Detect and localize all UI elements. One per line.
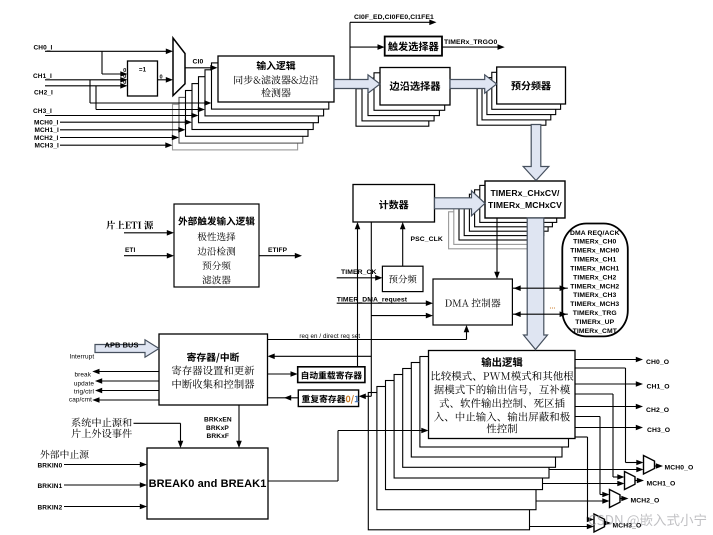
BRKIN1 label and wire: [38, 482, 148, 490]
svg-text:MCH1_I: MCH1_I: [35, 127, 60, 134]
edge selector main box: [380, 68, 450, 106]
XOR gate =1: [123, 61, 157, 96]
BRKIN0 label and wire: [38, 462, 148, 470]
system break sources label: [72, 418, 132, 427]
wire CH2_I branch to input logic CI2: [95, 86, 97, 110]
wire CH1_I to XOR input: [45, 79, 121, 81]
auto-reload register box: [298, 367, 365, 383]
wire on-chip ETI source: [124, 232, 168, 234]
output logic main box: [429, 351, 576, 439]
svg-text:MCH2_O: MCH2_O: [631, 497, 660, 504]
wire CH3_O output: [575, 425, 670, 434]
svg-text:CH2_I: CH2_I: [34, 89, 53, 96]
wire MCH1_I to input logic: [60, 129, 179, 131]
wire PSC_CLK prescaler to counter: [400, 222, 443, 266]
svg-text:BRKxF: BRKxF: [207, 433, 229, 440]
wire CH1_O output: [575, 381, 670, 390]
wire MCH0_I to input logic: [60, 121, 186, 123]
wire output stack to MCH0 mux: [549, 469, 637, 471]
wire register to auto-reload register: [268, 373, 292, 375]
svg-text:ETIFP: ETIFP: [268, 247, 288, 254]
wire CH3_I to input logic CI3: [45, 115, 192, 117]
svg-text:BRKIN1: BRKIN1: [38, 483, 63, 490]
svg-text:TIMERx_CMT: TIMERx_CMT: [573, 328, 618, 335]
TIMERx_CHxCV / TIMERx_MCHxCV register box: [485, 181, 565, 218]
wire TIMERx_TRGO0 output: [442, 39, 505, 50]
svg-text:TIMERx_MCH0: TIMERx_MCH0: [570, 248, 619, 255]
wire CH0_I to channel mux: [45, 50, 167, 52]
repetition register 0/1 box: [298, 390, 358, 407]
svg-text:MCH0_O: MCH0_O: [665, 464, 694, 471]
wire MCH0 pair down: [575, 367, 626, 369]
svg-text:BRKIN2: BRKIN2: [38, 504, 63, 511]
wire CH2_I to XOR input: [45, 85, 121, 87]
wire register BRKx to BREAK: [238, 405, 240, 442]
wire ETI input: [124, 255, 168, 257]
wire output stack to MCH1 mux: [543, 483, 619, 485]
svg-text:BRKxP: BRKxP: [206, 425, 229, 432]
svg-text:trig/ctrl: trig/ctrl: [74, 389, 94, 396]
svg-text:=1: =1: [139, 67, 147, 74]
wire system break sources to BREAK: [134, 422, 181, 424]
wire CH1_I branch to input logic CI1: [89, 80, 91, 103]
svg-text:TIMERx_MCH2: TIMERx_MCH2: [570, 283, 619, 290]
svg-text:ETI: ETI: [125, 247, 136, 254]
MCH3 output mux: [594, 514, 641, 532]
svg-text:TIMERx_CH0: TIMERx_CH0: [573, 239, 616, 246]
svg-text:TIMERx_MCH3: TIMERx_MCH3: [570, 301, 619, 308]
wire DMA to request bubble (bidirectional) 2: [512, 313, 567, 315]
wire counter down/reload bus: [370, 222, 372, 396]
svg-text:TIMERx_TRGO0: TIMERx_TRGO0: [444, 39, 497, 46]
wire DMA to request bubble (bidirectional) 1: [512, 287, 567, 289]
wire to trigger flags: [350, 21, 430, 23]
DMA controller box: [433, 279, 512, 325]
block arrow: input logic to edge selector: [334, 75, 380, 93]
capture/compare register stacked boxes: [449, 185, 557, 248]
svg-text:TIMERx_CH3: TIMERx_CH3: [573, 292, 616, 299]
wire branch to DMA controller: [371, 315, 427, 317]
wire CH2_O output: [575, 404, 669, 414]
wire req en / direct req set: [268, 325, 470, 340]
wire update output: [74, 378, 159, 387]
wire trig/ctrl output: [74, 388, 159, 396]
svg-text:CH1_I: CH1_I: [33, 73, 52, 80]
input logic stacked channel boxes: [173, 63, 329, 150]
svg-text:CH2_O: CH2_O: [646, 407, 669, 414]
block arrow: edge selector to prescaler: [450, 75, 497, 93]
svg-text:CH0_I: CH0_I: [34, 44, 53, 51]
svg-text:cap/cmt: cap/cmt: [69, 397, 92, 404]
svg-text:MCH2_I: MCH2_I: [34, 135, 59, 142]
counter box: [353, 185, 435, 223]
wire auto-reload to counter: [357, 228, 359, 367]
prescaler box (PSC): [382, 266, 423, 291]
svg-text:TIMERx_UP: TIMERx_UP: [575, 319, 614, 326]
wire output stack to MCH3 mux: [530, 526, 588, 528]
svg-text:...: ...: [550, 304, 556, 311]
svg-text:BRKIN0: BRKIN0: [38, 462, 63, 469]
external break source label: [40, 450, 88, 459]
svg-text:update: update: [74, 381, 94, 388]
MCH2 output mux: [610, 490, 660, 508]
wire cap/cmt output: [69, 397, 159, 404]
watermark: [589, 514, 706, 528]
svg-text:TIMERx_MCHxCV: TIMERx_MCHxCV: [488, 200, 562, 210]
channel prescaler stacked boxes: [477, 72, 560, 125]
on-chip ETI source label: [106, 221, 153, 230]
wire ETIFP output: [259, 247, 302, 258]
wire TIMER_CK: [337, 269, 383, 280]
svg-text:TIMERx_CH1: TIMERx_CH1: [573, 257, 616, 264]
svg-text:Interrupt: Interrupt: [70, 354, 95, 361]
node: CI0 edge flag tap: [349, 22, 351, 79]
channel input mux: [173, 38, 185, 96]
svg-text:TIMERx_CHxCV/: TIMERx_CHxCV/: [490, 188, 560, 198]
svg-text:req en / direct req set: req en / direct req set: [299, 333, 360, 340]
MCH0 output mux: [644, 456, 694, 475]
output logic stacked channel boxes: [368, 357, 568, 530]
wire XOR output to channel mux: [158, 74, 174, 82]
BRKIN2 label and wire: [38, 504, 148, 512]
svg-text:APB BUS: APB BUS: [105, 341, 139, 350]
svg-text:CI0: CI0: [193, 59, 204, 66]
channel prescaler main box: [497, 67, 566, 104]
wire CHxCV to DMA controller: [496, 218, 498, 273]
svg-text:CH0_O: CH0_O: [646, 359, 669, 366]
svg-text:0: 0: [123, 80, 126, 86]
svg-text:BRKxEN: BRKxEN: [204, 417, 232, 424]
wire branch into register block: [274, 355, 372, 357]
svg-text:CH3_O: CH3_O: [647, 427, 670, 434]
wire into repetition register: [365, 395, 372, 397]
block arrow: APB BUS into register block: [95, 340, 159, 357]
svg-text:0: 0: [123, 68, 126, 74]
svg-text:MCH0_I: MCH0_I: [34, 120, 59, 127]
wire MCH3_I to input logic: [60, 144, 166, 146]
wire output stack to MCH2 mux: [536, 500, 603, 502]
svg-text:MCH1_O: MCH1_O: [647, 481, 676, 488]
svg-text:CI0F_ED,CI0FE0,CI1FE1: CI0F_ED,CI0FE0,CI1FE1: [354, 14, 434, 21]
svg-text:CH1_O: CH1_O: [647, 384, 670, 391]
block arrow: CHxCV registers down to output logic: [524, 218, 548, 350]
svg-text:TIMER_DMA_request: TIMER_DMA_request: [337, 296, 408, 303]
wire to trigger selector: [350, 46, 379, 48]
wire CH0_I branch down to XOR input: [101, 51, 103, 74]
svg-text:DMA REQ/ACK: DMA REQ/ACK: [570, 230, 620, 237]
svg-text:0: 0: [160, 74, 163, 80]
svg-text:PSC_CLK: PSC_CLK: [411, 236, 443, 243]
block arrow: counter to CHxCV registers: [435, 191, 486, 216]
register/interrupt box: [159, 334, 268, 405]
wire MCH3 pair down: [575, 436, 588, 438]
trigger selector box: [385, 37, 442, 56]
svg-text:TIMERx_CH2: TIMERx_CH2: [573, 274, 616, 281]
svg-text:break: break: [75, 372, 92, 379]
wire break output: [75, 369, 160, 379]
BRKxEN BRKxP BRKxF labels: [204, 417, 232, 440]
wire register to repetition register (bidirectional): [268, 397, 299, 399]
wire MCH2 pair down: [575, 416, 600, 418]
edge selector stacked boxes: [356, 73, 445, 126]
MCH1 output mux: [625, 472, 676, 490]
svg-text:CH3_I: CH3_I: [33, 108, 52, 115]
svg-text:TIMERx_MCH1: TIMERx_MCH1: [570, 265, 619, 272]
external trigger input logic box: [174, 204, 259, 287]
wire CH0_O output: [530, 357, 707, 532]
svg-text:BREAK0 and BREAK1: BREAK0 and BREAK1: [149, 478, 267, 490]
block arrow: prescaler down to CHxCV registers: [523, 125, 549, 181]
wire BREAK to output logic: [268, 480, 338, 482]
svg-text:MCH3_I: MCH3_I: [35, 143, 60, 150]
BREAK0 and BREAK1 box: [147, 448, 268, 519]
wire MCH2_I to input logic: [60, 137, 173, 139]
wire TIMER_DMA_request: [337, 296, 433, 306]
DMA request/acknowledge list bubble: [562, 224, 628, 337]
input logic main box U1: [218, 56, 334, 102]
wire CI0 mux to input logic: [185, 59, 218, 71]
svg-text:TIMERx_TRG: TIMERx_TRG: [573, 310, 617, 317]
wire MCH1 pair down: [575, 393, 613, 395]
